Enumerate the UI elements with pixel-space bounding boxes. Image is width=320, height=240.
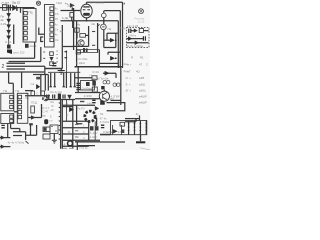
switch prong 3 (63, 73, 65, 87)
node dot (115, 57, 117, 59)
U2 pin 7 (50, 38, 54, 42)
wire (77, 52, 98, 54)
U1 pin 5 (24, 32, 28, 35)
transformer T1 box (111, 121, 147, 135)
U2 pin 2 (50, 12, 54, 16)
diode VD8 (70, 3, 74, 7)
table inner vertical (66, 100, 68, 121)
U5 pin 4 (18, 110, 22, 113)
wire stub (16, 8, 18, 11)
resistor R3 (75, 28, 79, 32)
U5 pin 1 (18, 95, 22, 98)
switch prong 5 (74, 73, 76, 87)
wire (11, 124, 20, 132)
wire (77, 49, 100, 51)
cell mark (75, 124, 78, 126)
wire (72, 21, 74, 28)
component box (92, 87, 97, 92)
tick mark (97, 24, 100, 27)
wire (45, 68, 63, 70)
table row line (62, 120, 88, 122)
wire stub (41, 37, 44, 42)
component box (50, 125, 58, 134)
wire bus vertical 3 (122, 2, 124, 68)
capacitor C4 (52, 63, 56, 66)
table inner vertical 2 (72, 100, 74, 149)
op-amp U3 body (1, 93, 14, 111)
wire R2 lead (71, 17, 73, 21)
wire (62, 104, 95, 106)
table right vertical 2 (94, 121, 96, 140)
table row line (62, 145, 88, 147)
wire (127, 42, 149, 44)
capacitor C6 blob (86, 48, 88, 52)
wire grid left (61, 10, 81, 12)
U2 pin 1 (50, 7, 54, 10)
dark blob right (100, 100, 105, 105)
resistor R8 (31, 106, 35, 113)
diode VD15 (1, 136, 5, 140)
capacitor C18 blob (7, 45, 11, 49)
U3 pin 1 (10, 95, 13, 98)
wire (75, 98, 100, 100)
lamp H1 (44, 96, 48, 100)
meter P1 (101, 24, 107, 30)
resistor R5 (92, 76, 97, 80)
wire (77, 78, 79, 93)
diode VD20 (134, 29, 137, 33)
winding 4 (145, 121, 147, 135)
table pin dash 1 (59, 102, 61, 104)
wire diode lead (71, 7, 73, 10)
wire (13, 135, 22, 137)
wire (9, 72, 14, 93)
wire (104, 30, 116, 48)
wire (125, 118, 140, 120)
capacitor C15 (1, 125, 4, 127)
wire connector (63, 46, 74, 48)
wire bottom thick (75, 141, 100, 143)
box marks (51, 127, 57, 132)
wire divider thick (75, 66, 123, 68)
table pin dash 8 (59, 134, 61, 136)
vacuum tube VL1 (81, 4, 92, 18)
contact circle pair 2 (113, 83, 116, 86)
contact circle pair 1 (103, 81, 106, 84)
resistor R4 (80, 34, 86, 38)
neon lamp HL1 (102, 13, 107, 18)
wire (75, 77, 92, 79)
tube top lead (86, 2, 88, 4)
wire (0, 146, 10, 148)
wire (0, 57, 35, 59)
diode VD18 (105, 71, 109, 75)
tube anode bar (83, 6, 89, 8)
winding 1 (128, 121, 130, 135)
U1 output blob (25, 44, 29, 48)
wire (13, 132, 26, 140)
terminal blob (29, 123, 33, 125)
transistor lead (103, 90, 105, 92)
tube grid dashes (83, 9, 90, 11)
wire (108, 52, 120, 54)
capacitor C8 (143, 36, 145, 41)
wire (104, 39, 110, 41)
wire top bus (87, 1, 123, 3)
U5 pin 2 (18, 100, 22, 103)
wire (73, 45, 89, 47)
contact dash (92, 31, 95, 33)
diode VD12 (135, 41, 139, 45)
table pin dash 5 (59, 120, 61, 122)
wire (25, 95, 50, 97)
pin ticks (56, 51, 58, 62)
amplifier block dark (58, 94, 61, 100)
tick (26, 141, 29, 144)
wire (131, 30, 135, 32)
tube bottom lead (86, 17, 88, 20)
wire cathode bus (61, 20, 119, 22)
transistor Q2 blob (44, 119, 48, 124)
table pin dash 7 (59, 129, 61, 131)
ground GND2 (53, 134, 55, 141)
wire input top (0, 7, 35, 9)
wire (127, 38, 144, 40)
cell mark (75, 130, 78, 132)
U4 pin 2 (10, 119, 13, 122)
wire long vertical (76, 21, 78, 67)
capacitor C2 (50, 52, 54, 56)
wire (44, 66, 46, 75)
capacitor C16 (92, 100, 95, 102)
table pin dash 9 (59, 138, 61, 140)
table row line (62, 139, 100, 141)
tick (123, 3, 125, 5)
table pin dash 2 (59, 107, 61, 109)
upper box (107, 103, 125, 111)
primary tap box (120, 122, 125, 126)
cell blob 2 (95, 126, 99, 130)
U1 pin 4 (24, 27, 28, 30)
op-amp U4 body (1, 114, 14, 124)
wire vertical (97, 23, 99, 53)
wire (34, 42, 36, 58)
wire (0, 137, 10, 139)
motor M1 toroid (85, 111, 95, 121)
wire (7, 62, 26, 64)
tick (43, 52, 45, 58)
transistor Q3 (99, 91, 109, 101)
U2 pin 5 (50, 28, 54, 32)
capacitor C11 electrolytic (76, 88, 80, 90)
wire (7, 68, 26, 70)
inductor box L1 (139, 29, 143, 33)
wire (111, 99, 121, 101)
wire bus vertical 1 (117, 21, 119, 68)
connector flag X1 (7, 50, 12, 55)
switch contact column (65, 51, 67, 73)
op-amp U1 body (23, 9, 36, 43)
capacitor C7 (129, 29, 131, 33)
wire (107, 33, 118, 40)
diode VD17 (31, 116, 35, 120)
wire long vertical (73, 8, 75, 50)
wire (28, 117, 42, 119)
arrow (95, 106, 99, 110)
wire (125, 119, 136, 122)
wire to ground (45, 68, 63, 70)
wire (103, 73, 116, 78)
paper grain overlay (0, 0, 1, 1)
diode VD9 (110, 38, 114, 42)
wire (21, 72, 23, 88)
U4 pin 1 (10, 115, 13, 118)
table row line (62, 127, 88, 129)
resistor R7 (41, 91, 45, 96)
diode VD11 (128, 37, 132, 41)
diode VD1 (13, 5, 17, 10)
indicator ring (68, 141, 73, 146)
node dot (86, 20, 88, 22)
U1 pin 2 (24, 17, 28, 20)
wire (76, 32, 78, 38)
diode VD10 (110, 56, 114, 60)
wire vertical (88, 26, 90, 46)
table edge double line (61, 100, 63, 149)
wire (40, 47, 42, 62)
wire box edge (65, 72, 67, 88)
wire box bottom (25, 125, 37, 135)
winding 3 (139, 121, 141, 135)
scan edge diagonal (140, 148, 150, 150)
label dark dashes (80, 101, 84, 103)
table row line (62, 106, 73, 108)
U2 pin 3 (50, 17, 54, 21)
U1 pin 1 (24, 12, 28, 15)
table pin dash 3 (59, 111, 61, 113)
relay cell dark (44, 128, 46, 131)
capacitor C17 (101, 125, 104, 127)
winding 2 (134, 121, 136, 135)
capacitor C13 (53, 95, 55, 99)
wire (44, 75, 46, 91)
relay cell box 1 (43, 127, 50, 132)
U3 pin 2 (10, 100, 13, 103)
relay box K2 (81, 81, 95, 91)
wire (7, 65, 45, 67)
wire drop (73, 11, 75, 21)
wire (77, 67, 79, 78)
node dot (73, 10, 75, 12)
relay cell box 2 (43, 134, 50, 139)
diode VD19 (113, 129, 117, 133)
bottom box (77, 142, 95, 150)
resistor R6 (31, 91, 35, 96)
wire vertical left (13, 25, 15, 45)
op-amp U5 body (17, 93, 28, 123)
wire (14, 111, 17, 113)
contact dash (92, 44, 95, 46)
wire vertical (113, 125, 122, 134)
wire (0, 71, 44, 73)
wire (139, 115, 141, 120)
transistor Q3 base bar (101, 86, 104, 89)
node dot (115, 39, 117, 41)
toroid lead (96, 118, 98, 127)
arrow marker (69, 107, 73, 111)
diode VD7 (50, 57, 54, 60)
wire right edge (120, 68, 122, 105)
wire box top (33, 74, 48, 76)
dark blob (92, 81, 96, 86)
component box K1 (76, 50, 80, 54)
node junction A (36, 1, 40, 5)
wire prong rail (48, 71, 80, 73)
U3 pin 3 (10, 105, 13, 108)
U1 pin 6 (24, 37, 28, 40)
cell blob 1 (90, 126, 94, 130)
table row line (62, 133, 88, 135)
diode VD14 (36, 84, 39, 89)
U2 pin 4 (50, 23, 54, 27)
wire (25, 90, 33, 92)
wire node down (20, 8, 22, 13)
U5 pin 5 (18, 115, 22, 118)
fuse F1 (3, 5, 7, 10)
wire (85, 34, 88, 36)
wire U1 to U2 (39, 28, 45, 35)
op-amp U2 body (45, 5, 55, 48)
U1 pin 3 (24, 22, 28, 25)
wire (100, 134, 111, 136)
blob (122, 129, 125, 133)
capacitor C3 (50, 62, 54, 66)
contact dash 1 (65, 51, 68, 53)
tube cathode blob (83, 13, 90, 16)
transistor Q1 (78, 40, 84, 46)
U2 pin 6 (50, 33, 54, 37)
switch prong 1 (50, 73, 52, 87)
switch prong 2 (54, 73, 56, 87)
bottom dashes (63, 147, 73, 149)
capacitor C5 blob (83, 48, 85, 52)
wire (143, 30, 148, 32)
capacitor C14 (63, 95, 65, 99)
wire (99, 62, 118, 64)
relay coil blob (86, 82, 90, 86)
diode VD16 (1, 145, 5, 149)
switch prong 4 (70, 73, 72, 87)
wire (45, 99, 75, 101)
node dot (116, 84, 118, 86)
wire anode right (104, 10, 120, 12)
U5 pin 3 (18, 105, 22, 108)
wire (40, 75, 42, 96)
wire bus vertical 2 (119, 11, 121, 68)
wire (41, 104, 43, 118)
filter box Z1 (127, 28, 150, 48)
capacitor C10 electrolytic (76, 83, 80, 85)
cell mark (75, 136, 78, 138)
wire vertical (103, 11, 105, 25)
diode VD13 (68, 95, 72, 99)
resistor R2 (70, 13, 74, 18)
node B circled (139, 9, 144, 14)
table right vertical (88, 121, 90, 140)
capacitor C12 (47, 95, 49, 99)
diode chain VD2-VD6 (8, 11, 10, 47)
wire bus vertical (61, 25, 63, 69)
table pin dash 6 (59, 125, 61, 127)
wire vertical (115, 33, 117, 47)
ground GND3 (140, 135, 142, 142)
wire (9, 61, 41, 63)
capacitor C9 (52, 63, 56, 65)
component blob (36, 77, 40, 80)
wire bottom (100, 141, 125, 143)
ground GND1 (60, 69, 62, 71)
wire (77, 105, 83, 124)
capacitor C1 (8, 5, 10, 11)
wire (7, 124, 9, 138)
contact dash 2 (65, 57, 68, 59)
wire (47, 75, 49, 91)
wire vertical (98, 50, 100, 67)
wire (75, 92, 100, 94)
wire (100, 133, 111, 135)
table pin dash 4 (59, 116, 61, 118)
